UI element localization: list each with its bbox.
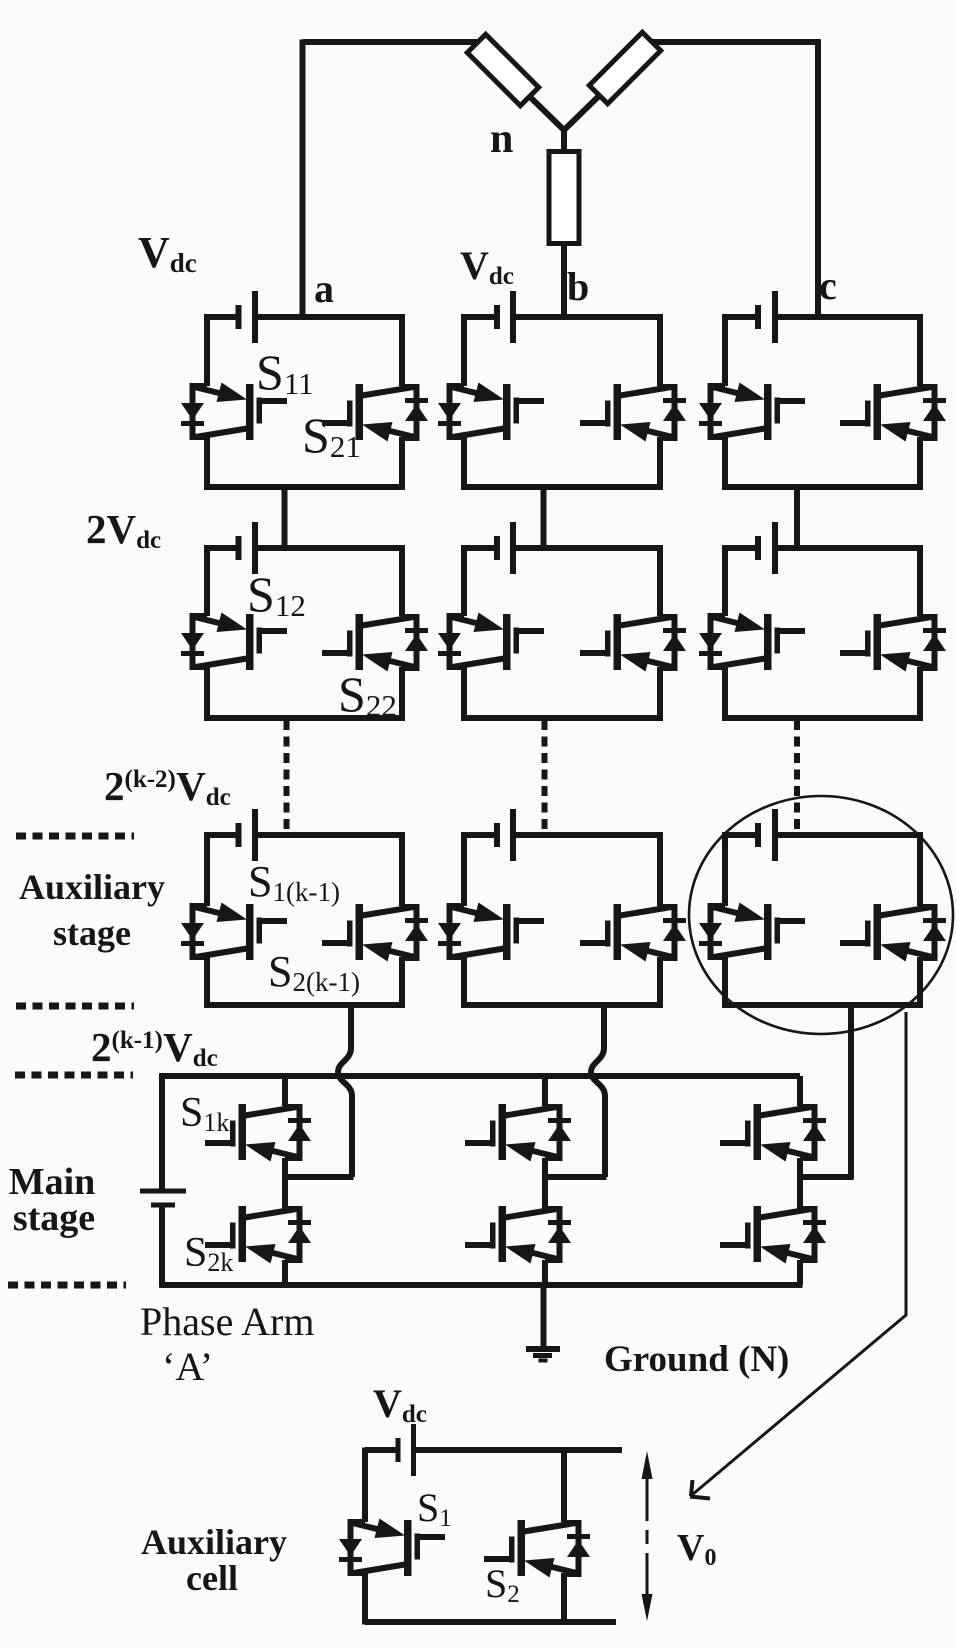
wire: leg B midpoint tap bbox=[545, 1174, 607, 1180]
svg-text:S22: S22 bbox=[338, 666, 397, 723]
transistor S1 aux cell bbox=[339, 1519, 445, 1577]
wire: cell A2 left edge bbox=[204, 545, 210, 616]
resistor: load phase b (vertical) bbox=[549, 152, 579, 244]
aux cell bottom edge bbox=[365, 1619, 616, 1625]
wire: leg A midpoint tap bbox=[285, 1174, 354, 1180]
svg-text:Vdc: Vdc bbox=[373, 1381, 427, 1428]
transistor S1 of cell C2 (IGBT w/ diode, left) bbox=[699, 613, 805, 671]
transistor S1 of cell B1 (IGBT w/ diode, left) bbox=[438, 383, 544, 441]
svg-text:Phase Arm: Phase Arm bbox=[140, 1299, 314, 1344]
transistor S1 of cell B2 (IGBT w/ diode, left) bbox=[438, 613, 544, 671]
transistor S2 aux cell bbox=[484, 1520, 590, 1578]
wire: leg B middle bbox=[542, 1158, 548, 1209]
battery Vdc of cell B3 bbox=[494, 823, 500, 847]
svg-text:S1k: S1k bbox=[180, 1090, 229, 1137]
wire: cell A1 top edge bbox=[207, 314, 239, 320]
wire: cell A2 right edge bbox=[399, 545, 405, 616]
wire: cell C3 right edge bbox=[917, 832, 923, 906]
svg-text:Auxiliary: Auxiliary bbox=[19, 867, 165, 907]
wire: cell B1 top edge bbox=[464, 314, 497, 320]
svg-text:n: n bbox=[490, 116, 513, 162]
battery aux cell plates bbox=[396, 1438, 401, 1462]
transistor S1 of cell A2 (IGBT w/ diode, left) bbox=[181, 613, 287, 671]
transistor S1 of cell C3 (IGBT w/ diode, left) bbox=[699, 903, 805, 961]
transistor upper IGBT leg A bbox=[205, 1104, 311, 1162]
wire: leg C middle bbox=[797, 1158, 803, 1209]
dashed separator 4 bbox=[8, 1282, 126, 1289]
transistor lower IGBT leg B bbox=[465, 1206, 571, 1264]
svg-text:S1(k-1): S1(k-1) bbox=[248, 857, 340, 907]
battery Vdc of cell B2 bbox=[494, 536, 500, 560]
svg-text:stage: stage bbox=[53, 913, 131, 953]
wire: cell B3 top edge bbox=[464, 832, 497, 838]
wire: phase a vertical drop bbox=[300, 40, 306, 320]
wire: cell B3 left edge bbox=[461, 832, 467, 906]
wire: cell B2 top edge bbox=[464, 545, 497, 551]
transistor S1 of cell C1 (IGBT w/ diode, left) bbox=[699, 383, 805, 441]
battery Vdc of cell B1 bbox=[494, 305, 500, 329]
wire: dashed link C2-C3 bbox=[794, 720, 800, 833]
transistor S2 of cell A3 (IGBT w/ diode, right) bbox=[322, 904, 428, 962]
wire: main stage bottom rail bbox=[160, 1282, 803, 1288]
svg-text:2(k-2) Vdc: 2(k-2) Vdc bbox=[104, 763, 231, 811]
wire: cell A2 bottom edge bbox=[207, 715, 402, 721]
wire: cell C2 top edge bbox=[725, 545, 758, 551]
svg-text:V0: V0 bbox=[677, 1527, 716, 1571]
wire: main stage leg A upper bbox=[282, 1076, 288, 1106]
wire: cell A3 right edge bbox=[399, 832, 405, 906]
wire: leg A middle bbox=[282, 1158, 288, 1209]
wire: cell B2 right edge bbox=[657, 545, 663, 616]
battery Vdc of cell C1 bbox=[755, 305, 761, 329]
wire: left load to neutral bbox=[528, 95, 566, 132]
callout arrowhead bbox=[690, 1480, 710, 1499]
wire: cell B1 right edge bbox=[657, 314, 663, 386]
resistor: load phase a (45 deg) bbox=[467, 34, 538, 105]
battery main stage plates bbox=[140, 1189, 186, 1194]
wire: main stage top rail bbox=[160, 1073, 801, 1079]
wire: link B1-B2 bbox=[541, 487, 547, 551]
wire: cell B2 bottom edge bbox=[464, 715, 660, 721]
wire: cell C2 bottom edge bbox=[725, 715, 920, 721]
wire: cell B1 bottom edge bbox=[464, 484, 660, 490]
wire: B3 output with crossover hop bbox=[591, 1005, 605, 1177]
svg-text:S2: S2 bbox=[485, 1561, 520, 1608]
svg-text:c: c bbox=[819, 263, 837, 308]
svg-text:b: b bbox=[567, 264, 589, 309]
wire: leg C midpoint tap bbox=[800, 1174, 854, 1180]
wire: leg A bottom bbox=[282, 1260, 288, 1285]
wire: load b to phase b bbox=[561, 242, 567, 318]
aux cell left edge bbox=[362, 1448, 368, 1523]
wire: ground drop bbox=[541, 1285, 547, 1349]
transistor S2 of cell A1 (IGBT w/ diode, right) bbox=[322, 384, 428, 442]
wire: cell C3 top edge bbox=[725, 832, 758, 838]
transistor S2 of cell C2 (IGBT w/ diode, right) bbox=[840, 614, 946, 672]
wire: C3 output bbox=[848, 1005, 854, 1179]
transistor upper IGBT leg C bbox=[720, 1104, 826, 1162]
transistor S2 of cell B2 (IGBT w/ diode, right) bbox=[580, 614, 686, 672]
wire: cell C1 bottom edge bbox=[725, 484, 920, 490]
ground symbol bbox=[526, 1346, 560, 1352]
transistor lower IGBT leg A bbox=[205, 1206, 311, 1264]
battery Vdc of cell A2 bbox=[236, 536, 242, 560]
transistor S2 of cell A2 (IGBT w/ diode, right) bbox=[322, 614, 428, 672]
transistor S2 of cell C3 (IGBT w/ diode, right) bbox=[840, 904, 946, 962]
battery Vdc of cell C3 bbox=[755, 823, 761, 847]
callout line from ellipse bbox=[693, 1012, 907, 1495]
svg-text:2Vdc: 2Vdc bbox=[86, 506, 161, 554]
transistor upper IGBT leg B bbox=[465, 1104, 571, 1162]
wire: cell C1 right edge bbox=[917, 314, 923, 386]
resistor: load phase c (-45 deg) bbox=[589, 32, 660, 103]
wire: cell C2 left edge bbox=[722, 545, 728, 616]
dashed separator 3 bbox=[15, 1072, 133, 1079]
svg-text:S1: S1 bbox=[417, 1485, 452, 1532]
ellipse highlight around cell C3 bbox=[689, 796, 953, 1034]
wire: link C1-C2 bbox=[794, 487, 800, 551]
wire: main stage left edge upper bbox=[159, 1074, 165, 1189]
wire: cell C1 top edge bbox=[725, 314, 758, 320]
wire: cell A1 bottom edge bbox=[207, 484, 402, 490]
wire: dashed link B2-B3 bbox=[542, 720, 548, 833]
svg-text:Ground (N): Ground (N) bbox=[604, 1339, 789, 1380]
wire: cell B2 left edge bbox=[461, 545, 467, 616]
aux cell S2 branch wire bbox=[561, 1450, 567, 1522]
wire: dashed link A2-A3 bbox=[284, 720, 290, 833]
battery Vdc of cell A3 bbox=[236, 823, 242, 847]
transistor S1 of cell A3 (IGBT w/ diode, left) bbox=[181, 903, 287, 961]
wire: link A1-A2 bbox=[282, 487, 288, 551]
wire: cell B1 left edge bbox=[461, 314, 467, 386]
wire: right load to neutral bbox=[562, 95, 601, 133]
wire: cell A3 bottom edge bbox=[207, 1002, 402, 1008]
svg-text:S2k: S2k bbox=[184, 1230, 233, 1277]
wire: leg B bottom bbox=[542, 1260, 548, 1285]
svg-text:a: a bbox=[314, 266, 334, 311]
wire: top horizontal left segment bbox=[303, 39, 482, 45]
wire: cell A2 top edge bbox=[207, 545, 239, 551]
transistor S2 of cell B1 (IGBT w/ diode, right) bbox=[580, 384, 686, 442]
svg-text:Vdc: Vdc bbox=[460, 243, 514, 290]
wire: neutral down to load b bbox=[561, 129, 567, 153]
V0 measurement arrow bbox=[642, 1451, 653, 1479]
wire: cell A1 left edge bbox=[204, 314, 210, 386]
svg-text:‘A’: ‘A’ bbox=[162, 1344, 213, 1389]
wire: main stage leg C upper bbox=[797, 1076, 803, 1106]
wire: main stage leg B upper bbox=[542, 1076, 548, 1106]
svg-text:S12: S12 bbox=[247, 566, 306, 623]
wire: cell C3 bottom edge bbox=[725, 1002, 920, 1008]
transistor S2 of cell C1 (IGBT w/ diode, right) bbox=[840, 384, 946, 442]
transistor lower IGBT leg C bbox=[720, 1206, 826, 1264]
aux cell top edge bbox=[365, 1447, 398, 1453]
wire: phase c vertical drop bbox=[815, 40, 821, 319]
svg-text:Vdc: Vdc bbox=[138, 228, 197, 278]
wire: cell C1 left edge bbox=[722, 314, 728, 386]
battery Vdc of cell C2 bbox=[755, 536, 761, 560]
wire: cell B3 bottom edge bbox=[464, 1002, 660, 1008]
svg-text:cell: cell bbox=[186, 1558, 238, 1598]
transistor S1 of cell B3 (IGBT w/ diode, left) bbox=[438, 903, 544, 961]
transistor S2 of cell B3 (IGBT w/ diode, right) bbox=[580, 904, 686, 962]
svg-text:stage: stage bbox=[13, 1197, 95, 1239]
wire: cell C3 left edge bbox=[722, 832, 728, 906]
wire: top horizontal right segment bbox=[647, 39, 821, 45]
wire: cell A3 left edge bbox=[204, 832, 210, 906]
wire: cell B3 right edge bbox=[657, 832, 663, 906]
dashed separator 1 bbox=[16, 833, 134, 840]
wire: cell A3 top edge bbox=[207, 832, 239, 838]
dashed separator 2 bbox=[16, 1003, 134, 1010]
wire: cell C2 right edge bbox=[917, 545, 923, 616]
battery Vdc of cell A1 bbox=[236, 305, 242, 329]
svg-text:2(k-1) Vdc: 2(k-1) Vdc bbox=[91, 1024, 218, 1072]
svg-text:S2(k-1): S2(k-1) bbox=[268, 947, 360, 997]
wire: A3 output with crossover hop bbox=[338, 1005, 352, 1177]
wire: leg C bottom bbox=[797, 1260, 803, 1285]
wire: cell A1 right edge bbox=[399, 314, 405, 386]
wire: main stage left edge lower bbox=[159, 1207, 165, 1288]
svg-text:S11: S11 bbox=[256, 344, 314, 401]
svg-text:Auxiliary: Auxiliary bbox=[141, 1522, 287, 1562]
transistor S1 of cell A1 (IGBT w/ diode, left) bbox=[181, 383, 287, 441]
